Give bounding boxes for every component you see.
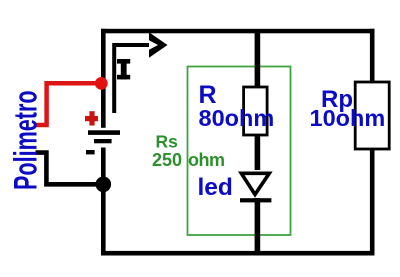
wire: bottom horizontal of main loop bbox=[101, 251, 375, 256]
resistor R body bbox=[244, 87, 268, 135]
label I (current) bbox=[117, 59, 130, 79]
node: black junction dot on negative wire bbox=[96, 177, 112, 193]
wire: left vertical upper (battery + up to top-left corner) bbox=[101, 29, 106, 128]
led diode triangle bbox=[241, 173, 269, 194]
wire: middle branch vertical segments (R + led branch) bbox=[255, 31, 261, 89]
svg-text:250ohm: 250ohm bbox=[152, 150, 225, 170]
battery plus sign bbox=[85, 111, 98, 125]
black probe wire of multimeter (negative lead) bbox=[36, 153, 102, 185]
wire: right vertical of main loop bbox=[370, 29, 375, 256]
green enclosure box around R and led branch bbox=[188, 67, 291, 236]
battery minus sign bbox=[86, 150, 95, 154]
svg-text:Polimetro: Polimetro bbox=[7, 90, 43, 190]
battery long plate (positive) bbox=[88, 130, 120, 135]
svg-text:Rs: Rs bbox=[156, 132, 179, 152]
wire: left vertical lower (battery - down to bottom-left corner) bbox=[101, 148, 106, 256]
battery short plate (negative) bbox=[94, 139, 112, 143]
svg-text:10ohm: 10ohm bbox=[310, 105, 386, 131]
svg-text:led: led bbox=[198, 174, 233, 201]
current arrow wire (shaft) bbox=[114, 45, 149, 113]
current arrow head bbox=[149, 32, 168, 58]
resistor Rp body bbox=[355, 82, 389, 149]
red probe wire of multimeter (positive lead) bbox=[36, 83, 101, 125]
node: red junction dot on positive wire bbox=[95, 77, 108, 90]
wire: top horizontal of main loop bbox=[101, 29, 375, 34]
svg-text:80ohm: 80ohm bbox=[199, 105, 275, 131]
led diode cathode bar bbox=[240, 198, 271, 202]
